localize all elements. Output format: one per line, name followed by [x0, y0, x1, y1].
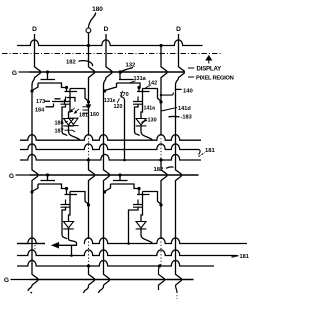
svg-text:D: D	[176, 26, 181, 33]
svg-text:132: 132	[126, 62, 137, 68]
svg-text:187: 187	[55, 128, 64, 134]
svg-text:G: G	[9, 173, 14, 180]
svg-text:140: 140	[183, 88, 194, 94]
svg-text:186: 186	[55, 120, 64, 126]
svg-text:173: 173	[36, 99, 45, 105]
svg-text:D: D	[32, 26, 37, 33]
svg-text:141d: 141d	[178, 106, 191, 112]
svg-text:D: D	[104, 26, 109, 33]
svg-text:180: 180	[92, 6, 103, 13]
svg-text:141a: 141a	[144, 106, 156, 112]
svg-text:PIXEL REGION: PIXEL REGION	[196, 75, 234, 81]
svg-text:120: 120	[114, 104, 123, 110]
svg-text:184: 184	[35, 107, 45, 113]
svg-text:G: G	[12, 70, 17, 77]
svg-text:G: G	[4, 277, 9, 284]
svg-text:182: 182	[66, 59, 77, 65]
svg-text:181: 181	[79, 113, 88, 119]
svg-text:181: 181	[240, 254, 249, 260]
svg-text:160: 160	[90, 112, 99, 118]
svg-text:-183: -183	[181, 115, 192, 121]
svg-text:181: 181	[205, 148, 216, 154]
svg-text:170: 170	[120, 92, 129, 98]
svg-text:DISPLAY: DISPLAY	[197, 66, 222, 73]
svg-text:130: 130	[148, 118, 157, 124]
svg-text:182: 182	[154, 167, 165, 173]
